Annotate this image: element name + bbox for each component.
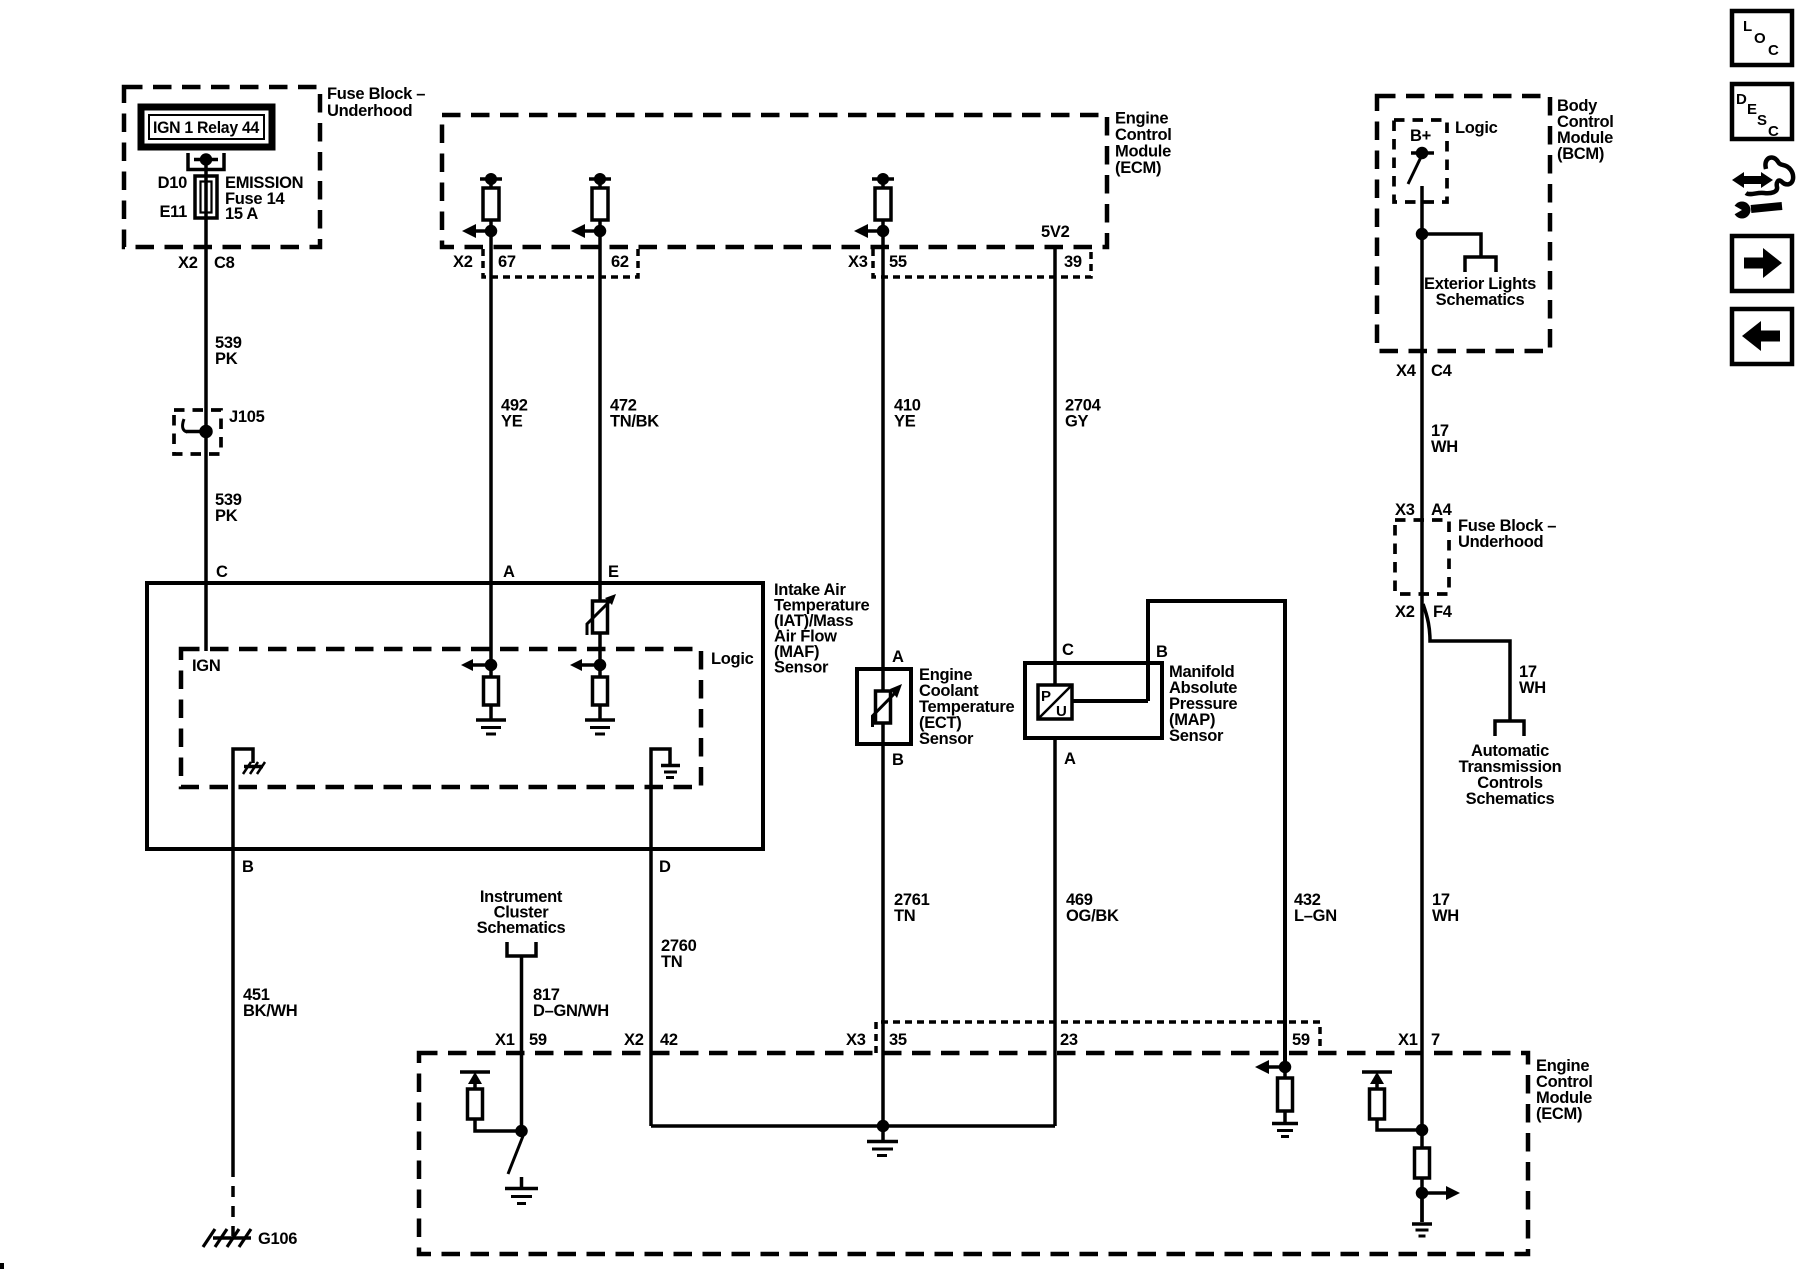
svg-text:F4: F4: [1433, 603, 1453, 621]
svg-text:D–GN/WH: D–GN/WH: [533, 1002, 609, 1020]
svg-text:IGN: IGN: [192, 657, 220, 675]
wire label 2761 TN: [894, 891, 930, 925]
svg-text:Underhood: Underhood: [327, 102, 412, 120]
junction and arrow on pin A wire inside logic: [461, 659, 496, 671]
logic box (dashed) inside BCM: [1394, 119, 1498, 202]
wire label 539 PK (lower): [215, 491, 242, 525]
connector X2 C8 labels: [178, 254, 235, 272]
wire label 432 L-GN: [1294, 891, 1337, 925]
svg-text:D: D: [1736, 91, 1747, 108]
svg-text:Module: Module: [1115, 143, 1171, 161]
svg-text:O: O: [1754, 30, 1766, 47]
wire label 2704 GY: [1065, 397, 1102, 431]
resistor on pin A inside logic: [484, 677, 499, 705]
wire label 17 WH (lower): [1432, 891, 1459, 925]
svg-text:GY: GY: [1065, 413, 1089, 431]
pull-up resistor inside ECM (pin 62): [571, 175, 611, 238]
svg-text:Fuse Block –: Fuse Block –: [327, 85, 425, 103]
fuse EMISSION Fuse 14 15 A (D10/E11): [158, 174, 304, 223]
connector X1 7 labels: [1398, 1031, 1440, 1049]
svg-text:WH: WH: [1519, 679, 1546, 697]
wire label 17 WH (upper): [1431, 422, 1458, 456]
svg-text:TN: TN: [661, 953, 682, 971]
svg-text:P: P: [1041, 688, 1051, 705]
svg-text:62: 62: [611, 253, 629, 271]
svg-text:C: C: [1062, 641, 1074, 659]
connector X4 C4 labels: [1396, 362, 1453, 380]
relay output pin bracket: [188, 153, 224, 170]
IAT/MAF sensor box: [147, 581, 870, 849]
svg-text:OG/BK: OG/BK: [1066, 907, 1119, 925]
wire label 2760 TN: [661, 937, 697, 971]
svg-text:Schematics: Schematics: [1466, 790, 1555, 808]
off-page reference from Instrument Cluster Schematics: [477, 888, 566, 956]
svg-text:15 A: 15 A: [225, 205, 258, 223]
svg-text:A: A: [892, 648, 904, 666]
svg-text:X3: X3: [846, 1031, 866, 1049]
wire label 492 YE: [501, 397, 528, 431]
pull-up resistor inside ECM (pin 67): [462, 175, 502, 238]
svg-text:(BCM): (BCM): [1557, 145, 1604, 163]
svg-text:59: 59: [1292, 1031, 1310, 1049]
nav icon forward arrow: [1732, 236, 1792, 291]
wire MAF pin B to ground G106: [231, 849, 235, 1236]
wire label 469 OG/BK: [1066, 891, 1119, 925]
svg-text:7: 7: [1431, 1031, 1440, 1049]
fuse block - underhood pass-through box (right): [1395, 517, 1556, 594]
logic box (dashed) inside MAF sensor: [181, 649, 754, 787]
wire pin 55 to ECT pin A: [881, 179, 885, 744]
wire pin 39 (5V2) to MAP pin C: [1053, 245, 1057, 685]
wire label 472 TN/BK: [610, 397, 659, 431]
thermistor symbol inside ECT: [873, 684, 903, 727]
svg-text:PK: PK: [215, 507, 238, 525]
svg-text:C: C: [216, 563, 228, 581]
variable resistor on pin E wire: [587, 594, 616, 635]
svg-text:C8: C8: [214, 254, 235, 272]
svg-text:U: U: [1056, 703, 1067, 720]
internal ground bus for pins 42/35/23: [651, 1122, 1055, 1156]
svg-text:X2: X2: [624, 1031, 644, 1049]
svg-text:Sensor: Sensor: [919, 730, 974, 748]
svg-text:B: B: [892, 751, 904, 769]
svg-text:L: L: [1743, 18, 1752, 35]
svg-text:X3: X3: [1395, 501, 1415, 519]
svg-text:(ECM): (ECM): [1536, 1105, 1582, 1123]
svg-text:55: 55: [889, 253, 907, 271]
internal chassis ground branch (pin B side): [233, 749, 265, 849]
svg-text:Control: Control: [1115, 126, 1172, 144]
wire from P/U to pin B: [1072, 699, 1148, 703]
internal earth ground branch (pin D side): [651, 749, 680, 849]
body control module (BCM) box: [1377, 96, 1614, 351]
wire label 539 PK (upper): [215, 334, 242, 368]
engine control module (ECM) box (top): [442, 110, 1172, 248]
internal input resistor to ground (pin 59): [1255, 1060, 1298, 1137]
svg-text:B+: B+: [1410, 127, 1431, 145]
connector X2 42 labels: [624, 1031, 678, 1049]
svg-text:Logic: Logic: [1455, 119, 1498, 137]
connector X2 (pins 67/62) dotted box: [453, 249, 638, 277]
svg-text:A4: A4: [1431, 501, 1453, 519]
engine control module (ECM) box (bottom): [419, 1053, 1593, 1254]
svg-text:C4: C4: [1431, 362, 1453, 380]
wire label 817 D-GN/WH: [533, 986, 609, 1020]
nav icon DESC: [1732, 84, 1792, 140]
connector X1 59 labels (instrument cluster pin): [495, 1031, 547, 1049]
svg-text:23: 23: [1060, 1031, 1078, 1049]
wire MAP B up and over to ECM pin 59: [1148, 601, 1285, 1067]
fuse block - underhood module box (top left): [124, 85, 425, 247]
nav icon wiring schematic (arrows and wrench): [1728, 158, 1793, 219]
svg-text:S: S: [1757, 112, 1767, 129]
svg-text:67: 67: [498, 253, 516, 271]
svg-text:IGN 1 Relay 44: IGN 1 Relay 44: [153, 119, 260, 137]
svg-text:B: B: [242, 858, 254, 876]
svg-text:BK/WH: BK/WH: [243, 1002, 297, 1020]
svg-text:X3: X3: [848, 253, 868, 271]
svg-text:35: 35: [889, 1031, 907, 1049]
svg-text:YE: YE: [894, 413, 916, 431]
connector X3 A4 labels: [1395, 501, 1453, 519]
wire pin 67 to MAF pin A: [489, 179, 493, 677]
svg-text:WH: WH: [1431, 438, 1458, 456]
MAP sensor box: [1025, 663, 1237, 745]
svg-text:B: B: [1156, 643, 1168, 661]
svg-text:L–GN: L–GN: [1294, 907, 1337, 925]
wire label 410 YE: [894, 397, 921, 431]
svg-text:Logic: Logic: [711, 650, 754, 668]
off-page reference to Automatic Transmission Controls Schematics: [1459, 663, 1562, 808]
connector X3 dotted box (pins 35/23/59): [846, 1022, 1320, 1053]
svg-text:TN/BK: TN/BK: [610, 413, 659, 431]
splice J105: [174, 408, 265, 454]
svg-text:YE: YE: [501, 413, 523, 431]
wire instrument cluster to ECM pin X1-59: [520, 956, 524, 1131]
svg-text:A: A: [1064, 750, 1076, 768]
svg-text:X1: X1: [495, 1031, 515, 1049]
relay label box IGN 1 Relay 44: [141, 107, 272, 147]
svg-text:D10: D10: [158, 174, 187, 192]
nav icon LOC: [1732, 11, 1792, 65]
svg-text:Schematics: Schematics: [477, 919, 566, 937]
svg-text:Schematics: Schematics: [1436, 291, 1525, 309]
svg-text:J105: J105: [229, 408, 265, 426]
svg-text:(ECM): (ECM): [1115, 159, 1161, 177]
off-page reference to Exterior Lights Schematics: [1424, 257, 1536, 309]
svg-text:A: A: [503, 563, 515, 581]
svg-text:WH: WH: [1432, 907, 1459, 925]
svg-text:X4: X4: [1396, 362, 1417, 380]
ground G106: [203, 1229, 297, 1248]
svg-text:Sensor: Sensor: [774, 659, 829, 677]
junction to exterior lights branch: [1418, 230, 1482, 258]
connector X2 F4 labels: [1395, 603, 1453, 621]
svg-text:X2: X2: [453, 253, 473, 271]
node B+ with switch inside BCM: [1408, 127, 1434, 184]
svg-text:5V2: 5V2: [1041, 223, 1070, 241]
junction and arrow on pin E wire inside logic: [570, 659, 605, 671]
svg-text:X1: X1: [1398, 1031, 1418, 1049]
svg-text:E11: E11: [159, 203, 187, 221]
ground under pin A resistor: [476, 705, 506, 734]
connector X3 (pins 55/39) dotted box: [848, 249, 1091, 277]
svg-text:39: 39: [1064, 253, 1082, 271]
internal pull-up with B+ arrow and switch to ground (pin X1-59): [460, 1072, 538, 1204]
svg-text:G106: G106: [258, 1230, 297, 1248]
internal pull-up and output driver (pin X1-7): [1362, 1072, 1460, 1236]
svg-text:TN: TN: [894, 907, 915, 925]
svg-text:E: E: [1747, 101, 1757, 118]
P/U transducer symbol inside MAP: [1038, 685, 1072, 720]
nav icon back arrow: [1732, 309, 1792, 364]
svg-text:E: E: [608, 563, 619, 581]
wire MAF pin D to ECM pin X2-42: [649, 849, 653, 1126]
svg-text:42: 42: [660, 1031, 678, 1049]
svg-text:X2: X2: [178, 254, 198, 272]
svg-text:Sensor: Sensor: [1169, 727, 1224, 745]
ground under pin E resistor: [585, 705, 615, 734]
svg-text:C: C: [1768, 42, 1779, 59]
branch wire to automatic transmission controls: [1423, 604, 1510, 721]
svg-text:59: 59: [529, 1031, 547, 1049]
wire MAP A to ECM pin 23: [1053, 738, 1057, 1126]
svg-text:X2: X2: [1395, 603, 1415, 621]
svg-text:PK: PK: [215, 350, 238, 368]
wire pin 62 to MAF pin E: [598, 179, 602, 677]
wire ECT B to ECM pin 35: [881, 744, 885, 1126]
svg-text:Underhood: Underhood: [1458, 533, 1543, 551]
resistor on pin E inside logic: [593, 677, 608, 705]
page edge artifact: [0, 1263, 4, 1269]
svg-text:C: C: [1768, 123, 1779, 140]
ECT sensor box: [857, 666, 1015, 748]
svg-text:D: D: [659, 858, 671, 876]
wire label 451 BK/WH: [243, 986, 297, 1020]
pull-up resistor inside ECM (pin 55): [854, 175, 894, 238]
svg-text:Engine: Engine: [1115, 110, 1168, 128]
wire from relay through fuse down to MAF pin C: [204, 159, 208, 651]
wire BCM B+ switch down to ECM pin X1-7: [1420, 186, 1424, 1222]
